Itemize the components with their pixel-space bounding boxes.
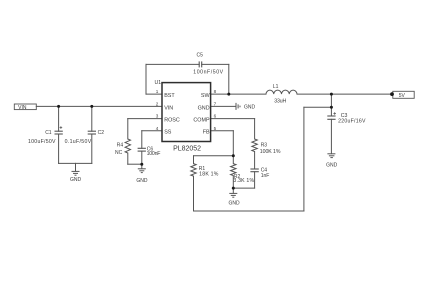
svg-text:GND: GND (244, 105, 256, 111)
junction R4/C6/GND (140, 163, 143, 166)
svg-text:1: 1 (156, 89, 159, 94)
svg-text:GND: GND (70, 177, 82, 183)
svg-text:COMP: COMP (193, 118, 210, 124)
svg-text:2: 2 (156, 102, 159, 107)
junction R2/C4/GND (232, 187, 235, 190)
svg-text:U1: U1 (155, 80, 162, 86)
wire C5 right (202, 63, 229, 65)
svg-text:100nF: 100nF (147, 151, 161, 157)
wire C2 top stub (91, 106, 93, 131)
wire ROSC drop to R4 (127, 119, 129, 139)
wire feedback bottom run (194, 210, 304, 212)
op-amp U1 IC body PL82052 (155, 80, 211, 153)
wire SW to L1 (211, 93, 266, 95)
wire R3 to C4 (254, 152, 256, 170)
wire GND pin lead (211, 105, 236, 107)
svg-text:GND: GND (136, 178, 148, 184)
wire FB node line (194, 155, 234, 157)
wire R2 bottom lead (232, 176, 234, 189)
wire feedback tap horizontal (304, 106, 332, 108)
capacitor C3 (327, 112, 336, 119)
wire C1 top stub (58, 106, 60, 131)
wire input gnd stub (75, 163, 77, 171)
wire output drop to C3 (330, 94, 332, 116)
wire SS pin lead (142, 130, 162, 132)
svg-text:VIN: VIN (164, 105, 173, 111)
wire feedback vertical (303, 107, 305, 211)
wire COMP pin lead (211, 118, 255, 120)
svg-text:GND: GND (326, 163, 338, 169)
wire input cap bottom join (59, 162, 92, 164)
junction VIN/C1 (57, 105, 60, 108)
wire R2 gnd stub (232, 188, 234, 193)
inductor L1 (266, 90, 297, 94)
svg-text:SW: SW (201, 93, 211, 99)
junction C3/feedback (330, 106, 333, 109)
wire R1 top lead (193, 156, 195, 164)
svg-text:NC: NC (115, 150, 123, 156)
svg-text:C5: C5 (197, 52, 204, 58)
capacitor C4 (250, 169, 258, 172)
wire R2 top lead (232, 156, 234, 164)
svg-text:100uF/50V: 100uF/50V (28, 139, 56, 145)
wire C6 bottom lead (141, 151, 143, 164)
capacitor C6 (138, 148, 146, 151)
svg-text:PL82052: PL82052 (173, 146, 201, 153)
junction SW/C5 (227, 93, 230, 96)
svg-text:100K 1%: 100K 1% (260, 149, 281, 155)
wire C1 bottom stub (58, 134, 60, 163)
resistor R1 (191, 164, 196, 177)
svg-text:ROSC: ROSC (164, 118, 180, 124)
svg-text:220uF/16V: 220uF/16V (338, 119, 366, 125)
svg-text:R4: R4 (117, 142, 124, 148)
capacitor C2 (88, 131, 96, 134)
wire VIN rail (36, 105, 162, 107)
junction VIN/C2 (90, 105, 93, 108)
ground R4/C6 (138, 169, 146, 173)
svg-text:5: 5 (214, 126, 217, 131)
svg-text:R3: R3 (261, 143, 268, 149)
junction output/C3 (330, 93, 333, 96)
resistor R2 (231, 164, 236, 176)
junction FB node (232, 154, 235, 157)
svg-text:1nF: 1nF (261, 173, 270, 179)
wire R2/C4 bottom join (233, 187, 254, 189)
resistor R4 (125, 139, 130, 153)
svg-text:18K 1%: 18K 1% (199, 171, 219, 177)
svg-text:C2: C2 (98, 130, 105, 136)
svg-text:FB: FB (203, 130, 210, 136)
svg-text:BST: BST (164, 93, 175, 99)
svg-text:3.3K 1%: 3.3K 1% (233, 178, 254, 184)
resistor R3 (252, 139, 257, 152)
wire COMP drop to R3 (254, 119, 256, 139)
wire C4 bottom lead (254, 172, 256, 188)
wire BST pin lead (146, 93, 162, 95)
ground C3 (327, 154, 335, 158)
wire ROSC pin lead (128, 118, 162, 120)
wire R1 bottom lead (193, 176, 195, 211)
svg-text:6: 6 (214, 114, 217, 119)
svg-text:7: 7 (214, 102, 217, 107)
svg-text:5V: 5V (399, 93, 406, 99)
ground pin 7 (right-pointing) (236, 103, 240, 110)
svg-text:VIN: VIN (18, 105, 27, 111)
wire L1 to 5V port (297, 93, 393, 95)
wire SS drop to C6 (141, 131, 143, 149)
svg-text:33uH: 33uH (274, 98, 286, 104)
wire FB drop (232, 131, 234, 156)
svg-text:C1: C1 (45, 130, 52, 136)
wire R4/C6 join (128, 163, 142, 165)
svg-text:GND: GND (198, 105, 210, 111)
wire C5 drop to SW (228, 64, 230, 94)
ground input caps (72, 171, 80, 175)
wire C6 gnd stub (141, 164, 143, 168)
capacitor C1 (55, 126, 63, 134)
svg-text:L1: L1 (273, 84, 279, 90)
svg-text:0.1uF/50V: 0.1uF/50V (65, 139, 92, 145)
wire C2 bottom stub (91, 134, 93, 163)
svg-text:SS: SS (164, 130, 172, 136)
wire C5 left (146, 63, 199, 65)
port VIN (14, 104, 36, 111)
capacitor C5 (199, 61, 202, 67)
port 5V (390, 91, 414, 99)
wire FB pin lead (211, 130, 234, 132)
wire R4 bottom lead (127, 153, 129, 164)
svg-text:4: 4 (156, 126, 159, 131)
svg-text:100nF/50V: 100nF/50V (193, 70, 223, 76)
svg-text:GND: GND (229, 200, 241, 206)
svg-text:3: 3 (156, 114, 159, 119)
wire BST riser (145, 64, 147, 94)
ground R2 bottom (229, 193, 237, 197)
wire C3 to gnd (330, 119, 332, 153)
svg-text:8: 8 (214, 89, 217, 94)
